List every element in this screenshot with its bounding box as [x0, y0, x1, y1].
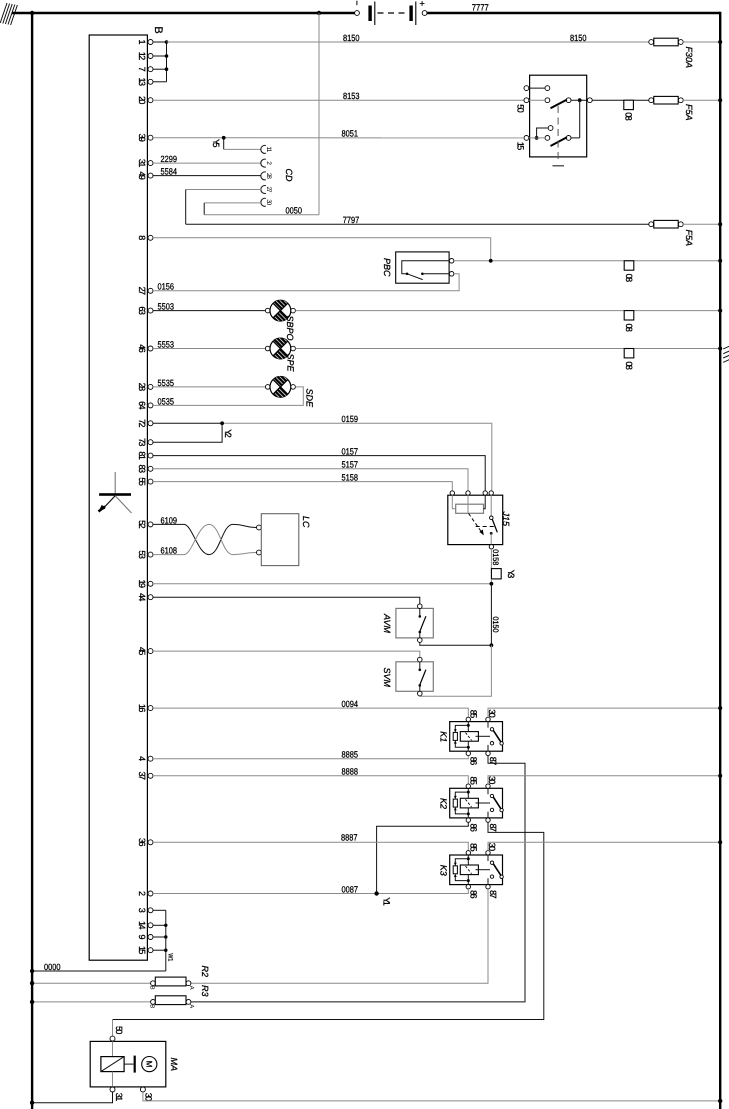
B pin 8 wire to PBC node	[137, 235, 491, 261]
lamp SBPO	[265, 300, 295, 340]
B pins group 1/12/7/13 with bus to 8150	[137, 39, 169, 86]
svg-text:30: 30	[144, 1093, 154, 1102]
svg-text:13: 13	[137, 78, 147, 87]
svg-text:Y3: Y3	[506, 570, 516, 579]
svg-text:0050: 0050	[286, 206, 303, 216]
svg-text:31: 31	[114, 1093, 124, 1102]
continuation hatch right edge	[723, 346, 729, 362]
top supply line (thick)	[12, 12, 355, 14]
svg-text:30: 30	[487, 843, 497, 852]
wire K2-86 down to Y1 node	[377, 822, 469, 893]
svg-text:AVM: AVM	[382, 613, 392, 634]
svg-text:30: 30	[265, 199, 272, 205]
wire K1-87 down to R3	[191, 756, 525, 1002]
svg-text:08: 08	[623, 112, 633, 121]
svg-text:08: 08	[624, 323, 634, 332]
B pin 36 / wire 8887 to K3-85	[137, 833, 469, 851]
ground arrow marker (page continuation)	[99, 472, 132, 513]
svg-text:5584: 5584	[161, 167, 178, 177]
svg-text:2299: 2299	[161, 154, 178, 164]
svg-text:9: 9	[137, 934, 147, 939]
B pin 53 / wire 6108 twisted	[137, 524, 257, 558]
svg-text:PBC: PBC	[382, 258, 392, 277]
svg-text:52: 52	[137, 520, 147, 529]
svg-text:W1: W1	[166, 953, 173, 961]
relay K1	[439, 709, 504, 765]
svg-text:Y1: Y1	[382, 897, 392, 906]
fuse F5A (ignition)	[649, 96, 722, 120]
svg-text:J15: J15	[501, 511, 511, 528]
svg-text:85: 85	[469, 843, 479, 852]
connector B outline	[89, 35, 147, 960]
svg-text:28: 28	[265, 173, 272, 179]
wire K2-87 down to MA 50	[113, 822, 544, 1019]
svg-text:86: 86	[468, 890, 478, 899]
component LC	[257, 514, 311, 566]
J15 contact	[490, 495, 492, 516]
svg-text:64: 64	[137, 401, 147, 410]
switch row aux contacts	[524, 86, 529, 91]
B pin 81 / wire 0157	[137, 447, 485, 492]
B pins 3/14/9/15 bus W1	[137, 908, 174, 971]
switch actuator dashed with ground	[557, 106, 559, 163]
svg-text:0087: 0087	[342, 884, 359, 894]
svg-text:72: 72	[137, 419, 147, 428]
svg-text:16: 16	[137, 704, 147, 713]
B pin 55 / wire 5158	[137, 473, 453, 492]
svg-text:2: 2	[137, 891, 147, 896]
relay PBC	[382, 252, 454, 283]
svg-text:0157: 0157	[342, 447, 359, 457]
svg-text:K1: K1	[439, 731, 449, 742]
CD pin 30 wire to 0050	[204, 203, 261, 215]
connector 08 on switch output	[623, 100, 633, 121]
svg-text:B: B	[152, 26, 164, 33]
svg-text:B: B	[149, 986, 156, 990]
left ground rail (thick)	[31, 12, 33, 1109]
svg-text:K3: K3	[439, 865, 449, 876]
B pin 44 wire to AVM	[137, 593, 420, 604]
svg-text:86: 86	[468, 823, 478, 832]
svg-text:0158: 0158	[491, 549, 500, 565]
node Y5 on 8051	[211, 136, 261, 149]
B pin 63 / wire 5503	[137, 302, 266, 315]
svg-text:A: A	[188, 1004, 195, 1008]
svg-text:8: 8	[137, 235, 147, 240]
wire 8150 to fuse F30A	[167, 33, 652, 43]
svg-text:B: B	[149, 1004, 156, 1008]
component CD pins (arcs)	[261, 145, 294, 206]
svg-text:11: 11	[265, 146, 272, 152]
svg-text:27: 27	[137, 287, 147, 296]
svg-text:27: 27	[265, 187, 272, 193]
svg-text:39: 39	[137, 133, 147, 142]
svg-text:Y2: Y2	[223, 429, 233, 438]
wire 0158 J15 to Y3	[491, 549, 500, 569]
resistor R2	[30, 966, 210, 990]
wire AVM to 0150 node	[420, 642, 490, 645]
svg-text:8887: 8887	[341, 833, 358, 843]
ground hatch top-left	[0, 3, 17, 25]
B pin 4 / wire 8885 to K1-86	[137, 750, 469, 762]
svg-text:08: 08	[624, 274, 634, 283]
svg-text:50: 50	[114, 1026, 124, 1035]
svg-text:15: 15	[516, 142, 526, 151]
svg-text:LC: LC	[301, 516, 311, 528]
svg-text:+: +	[420, 0, 425, 9]
svg-text:3: 3	[137, 908, 147, 913]
svg-text:F30A: F30A	[684, 47, 694, 69]
svg-text:SDE: SDE	[305, 389, 315, 409]
svg-text:37: 37	[137, 772, 147, 781]
lamp SDE	[265, 376, 314, 408]
svg-text:F5A: F5A	[684, 230, 694, 247]
svg-text:0535: 0535	[158, 396, 175, 406]
svg-text:8153: 8153	[343, 91, 360, 101]
svg-text:63: 63	[137, 306, 147, 315]
B pin 37 / wire 8888 to K2-85	[137, 767, 469, 784]
svg-text:MA: MA	[169, 1058, 179, 1072]
svg-text:CD: CD	[284, 169, 294, 182]
B pin 46 / wire 5553	[137, 339, 266, 352]
B pin 31 / wire 2299	[137, 154, 261, 167]
motor unit MA	[90, 1020, 179, 1102]
svg-text:8051: 8051	[342, 129, 359, 139]
relay K3	[439, 843, 504, 899]
B pin 27 / wire 0156 to PBC	[137, 274, 459, 295]
svg-text:87: 87	[488, 890, 498, 899]
svg-text:8150: 8150	[343, 33, 360, 43]
svg-text:85: 85	[469, 776, 479, 785]
switch SVM	[382, 657, 434, 696]
B pin 2 / wire 0087 to K3-86	[137, 884, 469, 896]
svg-text:46: 46	[137, 344, 147, 353]
svg-text:7: 7	[137, 67, 147, 72]
fuse F5A (row3)	[649, 220, 722, 246]
lamp SPE	[265, 338, 295, 372]
wire from switch 50 output to fuse F5A	[592, 99, 651, 101]
svg-text:49: 49	[137, 171, 147, 180]
svg-text:36: 36	[137, 838, 147, 847]
svg-text:7797: 7797	[343, 215, 360, 225]
svg-text:30: 30	[487, 776, 497, 785]
wire K3-30 to rail	[488, 840, 722, 850]
wire 0000 to ground rail	[30, 962, 166, 973]
svg-text:F5A: F5A	[684, 104, 694, 121]
svg-text:08: 08	[624, 361, 634, 370]
svg-text:30: 30	[487, 709, 497, 718]
svg-text:44: 44	[137, 593, 147, 602]
svg-text:K2: K2	[439, 798, 449, 809]
svg-text:1: 1	[137, 39, 147, 44]
B pin 72 / wire 0159	[137, 414, 492, 491]
wire 0150 vertical	[420, 579, 500, 696]
svg-text:4: 4	[137, 756, 147, 761]
B pin 83 / wire 5157	[137, 460, 468, 491]
fuse F30A	[649, 38, 722, 68]
wire 0050 up to battery line	[204, 13, 319, 216]
svg-text:86: 86	[468, 757, 478, 766]
B pin 64 / wire 0535 to SDE	[137, 387, 303, 410]
wire lamp SPE to rail with 08	[295, 347, 722, 370]
svg-text:20: 20	[137, 96, 147, 105]
wire 7797 to fuse F5A row3	[186, 215, 652, 225]
svg-text:0159: 0159	[342, 414, 359, 424]
svg-text:85: 85	[469, 710, 479, 719]
switch AVM	[382, 604, 434, 642]
svg-text:55: 55	[137, 477, 147, 486]
svg-text:87: 87	[488, 823, 498, 832]
CD pin 27 wire to 7797	[186, 190, 261, 225]
connector Y3	[491, 569, 516, 579]
node Y1	[374, 891, 391, 905]
wire K3-87 down to R2	[191, 889, 488, 983]
svg-text:12: 12	[137, 52, 147, 61]
svg-text:7777: 7777	[472, 3, 489, 13]
svg-text:R2: R2	[200, 966, 210, 978]
svg-text:31: 31	[137, 159, 147, 168]
svg-text:0150: 0150	[491, 617, 500, 633]
resistor R3	[30, 985, 210, 1008]
svg-text:8888: 8888	[342, 767, 359, 777]
svg-text:73: 73	[137, 438, 147, 447]
svg-text:5158: 5158	[342, 473, 359, 483]
svg-text:45: 45	[137, 647, 147, 656]
wire lamp SBPO to rail with 08	[295, 309, 722, 332]
svg-text:15: 15	[137, 946, 147, 955]
wire 7777 (battery plus feed, thick)	[427, 12, 720, 14]
right supply rail (thick)	[719, 12, 721, 1109]
wire MA-31 to ground rail	[30, 1092, 113, 1105]
aux contact of 15	[537, 128, 549, 138]
svg-text:83: 83	[137, 465, 147, 474]
node Y2 loop to pin 73	[137, 421, 233, 446]
B pin 16 / wire 0094 to K1	[137, 699, 469, 717]
svg-text:0094: 0094	[342, 699, 359, 709]
svg-text:5503: 5503	[158, 302, 175, 312]
svg-text:M: M	[145, 1061, 154, 1068]
junction battery line / left rail	[30, 11, 34, 15]
svg-text:50: 50	[516, 104, 526, 113]
junction battery line / 0050 drop	[317, 11, 321, 15]
svg-text:SBPO: SBPO	[285, 316, 295, 341]
wire MA-30 to supply rail	[143, 1092, 723, 1103]
wire K2-30 to rail	[488, 774, 722, 784]
ignition switch box	[516, 75, 593, 166]
svg-text:5157: 5157	[342, 460, 359, 470]
svg-text:14: 14	[137, 921, 147, 930]
switch contact 50	[524, 98, 529, 103]
svg-text:R3: R3	[200, 985, 210, 997]
svg-text:53: 53	[137, 550, 147, 559]
B pin 52 / wire 6109 twisted	[137, 515, 257, 554]
wire K1-30 to rail	[488, 706, 722, 717]
svg-text:Y5: Y5	[211, 139, 221, 148]
B pin 45 wire to SVM	[137, 647, 420, 657]
svg-text:28: 28	[137, 383, 147, 392]
svg-text:5553: 5553	[158, 339, 175, 349]
relay K2	[439, 776, 504, 832]
component J15	[448, 491, 511, 549]
svg-text:6108: 6108	[161, 546, 178, 556]
battery G	[355, 0, 427, 25]
B pin 39 / wire 8051	[137, 129, 524, 142]
switch contact 15	[524, 136, 529, 141]
svg-text:0156: 0156	[158, 282, 175, 292]
B pin 28 / wire 5535	[137, 378, 266, 391]
J15 actuator arrow	[469, 514, 481, 532]
svg-text:81: 81	[137, 451, 147, 460]
svg-text:A: A	[188, 986, 195, 990]
svg-text:87: 87	[488, 757, 498, 766]
B pin 49 / wire 5584	[137, 167, 261, 180]
svg-text:SPE: SPE	[286, 354, 296, 373]
svg-text:2: 2	[265, 161, 272, 165]
svg-text:0000: 0000	[44, 962, 61, 972]
svg-text:6109: 6109	[161, 515, 178, 525]
svg-text:19: 19	[137, 580, 147, 589]
svg-text:8150: 8150	[570, 33, 587, 43]
svg-text:SVM: SVM	[382, 668, 392, 688]
svg-text:8885: 8885	[342, 750, 359, 760]
link 50-15 inside switch	[579, 100, 581, 138]
wire PBC out to rail with 08	[454, 259, 722, 282]
svg-text:5535: 5535	[158, 378, 175, 388]
B pin 19 wire to 0150 node	[137, 580, 492, 589]
J15 coil	[456, 504, 484, 513]
B pin 20 / wire 8153	[137, 91, 524, 104]
